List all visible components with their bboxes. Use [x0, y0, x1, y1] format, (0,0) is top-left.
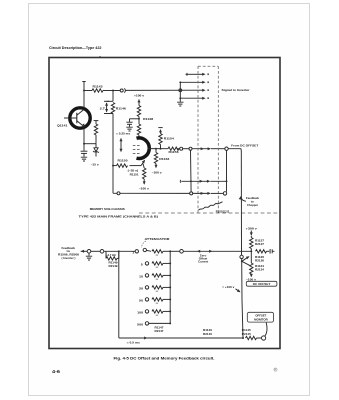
- capacitor output row1: [186, 73, 189, 76]
- svg-text:R2124: R2124: [255, 268, 265, 271]
- connector jack bus top: [225, 147, 228, 150]
- svg-text:(−55 v): (−55 v): [128, 170, 139, 173]
- registered mark: [274, 368, 277, 371]
- label feedback to chopper: [246, 196, 260, 207]
- wire: [95, 135, 97, 144]
- node: [169, 322, 171, 324]
- capacitor decoupling: [126, 122, 132, 127]
- node: [179, 81, 181, 83]
- wire output row4 arrow: [180, 97, 205, 100]
- node: [169, 250, 171, 252]
- wire zero offset current: [183, 250, 251, 253]
- resistor R1163: [154, 149, 170, 164]
- node: [169, 262, 171, 264]
- capacitor top plate small element: [94, 121, 99, 124]
- wire collector stub: [82, 82, 85, 91]
- svg-text:+300 v: +300 v: [246, 226, 258, 230]
- connector on row3: [179, 89, 182, 92]
- wire across chassis: [192, 147, 211, 150]
- pin mark row3: [207, 89, 209, 91]
- transistor Q1141: [57, 108, 90, 128]
- svg-text:R1154: R1154: [164, 136, 175, 140]
- svg-text:≈2.7 kΩ: ≈2.7 kΩ: [106, 254, 116, 257]
- svg-text:R2126: R2126: [255, 259, 265, 262]
- wire emitter row: [84, 143, 96, 145]
- resistor att row3: [152, 274, 170, 280]
- connector on bus: [240, 255, 243, 258]
- node junction: [138, 118, 140, 120]
- wire supply arrow down: [250, 231, 253, 236]
- svg-text:R1163: R1163: [159, 157, 170, 161]
- trimmer capacitor 2.7: [100, 101, 109, 113]
- svg-text:R1147: R1147: [155, 327, 165, 330]
- svg-text:Fig. 4-5 DC Offset and Memory: Fig. 4-5 DC Offset and Memory Feedback c…: [114, 356, 215, 360]
- resistor R1156: [168, 147, 179, 154]
- svg-text:Signal to Inverter: Signal to Inverter: [222, 88, 251, 92]
- svg-text:ATTENUATOR: ATTENUATOR: [145, 237, 170, 241]
- svg-text:Feedback: Feedback: [246, 196, 260, 200]
- wire att row7: [149, 322, 171, 324]
- wire row mid stub: [180, 180, 209, 183]
- label approx +100v: [222, 285, 241, 294]
- svg-text:100: 100: [137, 312, 144, 315]
- wire: [103, 90, 113, 92]
- svg-text:−100 v: −100 v: [246, 277, 257, 281]
- svg-text:4-6: 4-6: [52, 369, 61, 374]
- resistor R1146: [111, 103, 126, 114]
- svg-text:R1128: R1128: [143, 117, 154, 121]
- schematic frame: [49, 58, 280, 349]
- wire: [250, 249, 252, 252]
- wire supply arrow down: [250, 274, 253, 277]
- svg-text:R2149: R2149: [109, 265, 119, 268]
- resistor att row5: [152, 298, 170, 304]
- node: [169, 298, 171, 300]
- resistor att row1: [152, 250, 170, 256]
- node junction: [112, 90, 114, 92]
- chassis dashed line left: [197, 66, 199, 213]
- switch contact row5: [145, 298, 148, 301]
- timing double arrow: [120, 138, 123, 152]
- wire jack drop: [190, 150, 193, 192]
- wire down long: [112, 114, 114, 166]
- svg-text:R2147: R2147: [155, 330, 165, 333]
- ground decoupling: [126, 127, 132, 131]
- switch contact common: [135, 250, 138, 253]
- node bottom junction: [242, 337, 244, 339]
- svg-text:R1151: R1151: [130, 174, 140, 177]
- tube V1133 thick arc: [137, 138, 150, 159]
- node: [160, 148, 162, 150]
- switch contact row2: [145, 262, 148, 265]
- svg-text:R2140: R2140: [203, 333, 213, 336]
- svg-text:R1156: R1156: [169, 150, 180, 154]
- svg-text:Circuit Description—Type 422: Circuit Description—Type 422: [49, 46, 102, 50]
- wire: [211, 148, 225, 150]
- node wiper: [241, 260, 243, 262]
- wire bus lower: [242, 259, 243, 338]
- connector plug: [190, 192, 193, 195]
- connector monitor jack: [262, 336, 266, 340]
- svg-text:MONITOR: MONITOR: [254, 317, 268, 321]
- switch contact row3: [145, 274, 148, 277]
- wire to feedback bus: [228, 149, 241, 151]
- wire bottom row long: [120, 192, 190, 194]
- potentiometer R1126 R2126: [255, 249, 274, 262]
- svg-text:Offset: Offset: [199, 258, 208, 261]
- chassis dashed line right: [217, 66, 219, 213]
- resistor upper plate chain: [137, 106, 140, 117]
- svg-text:R1143: R1143: [93, 85, 104, 89]
- wire row mid arrows: [200, 180, 227, 183]
- wire attenuator leader dashed: [142, 241, 147, 248]
- wire emitter down: [83, 128, 85, 144]
- connector plug: [180, 147, 183, 150]
- wire: [91, 250, 100, 252]
- capacitor emitter bypass: [81, 144, 88, 157]
- node R1150 junction: [112, 165, 114, 167]
- wire supply arrow up: [138, 99, 141, 106]
- node bus mid: [226, 180, 228, 182]
- label feedback to inverter block: [58, 246, 80, 260]
- wire top to parallel pair: [112, 91, 114, 102]
- resistor R1150: [113, 158, 128, 167]
- svg-text:Zero: Zero: [200, 256, 207, 258]
- wire bottom row arrows: [193, 192, 224, 195]
- wire supply arrow down: [143, 179, 146, 185]
- tube grid dashes: [133, 145, 140, 153]
- box offset monitor: [247, 312, 273, 322]
- ground feedback: [86, 253, 92, 260]
- svg-text:500: 500: [137, 324, 144, 327]
- svg-text:≈ +100 v: ≈ +100 v: [222, 285, 235, 289]
- wire: [113, 90, 120, 92]
- wire chopper leader arrow: [239, 196, 246, 202]
- resistor R1149 2.7k: [106, 251, 119, 268]
- wire collector up: [83, 91, 85, 109]
- wire current arrow bottom: [144, 337, 147, 340]
- ground emitter: [81, 157, 87, 161]
- svg-text:−100 v: −100 v: [152, 170, 163, 174]
- resistor R1154 testpoint: [158, 128, 174, 149]
- wire wiper arrow: [242, 255, 251, 265]
- chassis dashed boundary horizontal: [139, 212, 279, 214]
- resistor emitter vertical: [94, 124, 97, 135]
- pin mark row4: [207, 97, 209, 99]
- resistor R1151: [143, 164, 146, 180]
- svg-text:R1150: R1150: [118, 158, 129, 162]
- wire memory row corner: [113, 166, 117, 194]
- connector att out: [180, 250, 184, 254]
- resistor R1145 R2145: [242, 329, 262, 339]
- wire feedback bus vertical: [240, 151, 242, 256]
- wire P1212 cable squiggle: [199, 202, 223, 210]
- wire bus vertical inner: [226, 150, 228, 191]
- wire: [177, 148, 180, 150]
- ground output bus: [177, 98, 183, 106]
- svg-text:+100 v: +100 v: [134, 94, 145, 98]
- wire output row2 arrow: [180, 81, 205, 84]
- svg-text:R1124: R1124: [255, 265, 265, 268]
- svg-text:−100 v: −100 v: [139, 187, 150, 191]
- wire monitor curve: [265, 323, 267, 337]
- connector jack feedback: [100, 250, 104, 254]
- node: [169, 310, 171, 312]
- wire to tube plate: [138, 135, 140, 138]
- switch wiper: [143, 248, 151, 251]
- node: [169, 274, 171, 276]
- resistor att row4: [152, 286, 170, 292]
- wire to R1143: [84, 90, 92, 92]
- wire to zero offset row: [170, 250, 180, 252]
- wire output row1 arrow: [189, 73, 206, 76]
- svg-text:Q1141: Q1141: [57, 124, 68, 128]
- connector jack bus bottom: [223, 192, 226, 195]
- wire plate row: [148, 148, 168, 150]
- svg-text:≈ 0.25 ms: ≈ 0.25 ms: [116, 133, 131, 136]
- node junction collector: [83, 90, 85, 92]
- wire output bus vertical: [179, 82, 181, 98]
- svg-text:P1212/J1212: P1212/J1212: [216, 211, 230, 213]
- wire feedback out arrow: [81, 250, 87, 253]
- svg-text:DC OFFSET: DC OFFSET: [253, 282, 271, 286]
- label R1147 R2147: [155, 327, 165, 334]
- resistor R1127 R2127: [250, 236, 265, 249]
- wire branch left: [130, 119, 140, 122]
- connector plug feedback: [87, 250, 91, 254]
- frame tick artifact: [99, 56, 101, 58]
- svg-text:R1127: R1127: [255, 240, 265, 243]
- wire attenuator input: [104, 250, 135, 252]
- node: [179, 97, 181, 99]
- chassis dashed bracket top: [198, 65, 218, 67]
- svg-text:( Inverter ): ( Inverter ): [62, 256, 76, 260]
- wire tie bars: [107, 101, 113, 113]
- svg-text:to: to: [251, 200, 255, 204]
- pin mark row2: [207, 81, 209, 83]
- label R1140 R2140: [203, 329, 213, 336]
- svg-text:Chopper: Chopper: [247, 203, 258, 207]
- resistor att row6: [152, 310, 170, 316]
- wire supply arrow down: [155, 164, 158, 169]
- diode to -15v: [93, 144, 99, 157]
- svg-text:−15 v: −15 v: [91, 162, 100, 166]
- node: [190, 180, 192, 182]
- svg-text:MEMORY SUB-CHASSIS: MEMORY SUB-CHASSIS: [90, 207, 125, 211]
- wire attenuator out bus: [169, 251, 171, 323]
- resistor R1124 R2124: [250, 251, 265, 274]
- pin mark row1: [207, 73, 209, 75]
- svg-text:R2127: R2127: [255, 243, 265, 246]
- svg-text:OFFSET: OFFSET: [255, 314, 266, 318]
- svg-text:TYPE 422 MAIN FRAME (CHANNELS: TYPE 422 MAIN FRAME (CHANNELS A & B): [79, 215, 158, 219]
- connector jack: [189, 147, 192, 150]
- box dc offset: [246, 281, 277, 286]
- connector plug bottom row: [117, 192, 120, 195]
- svg-text:≈ 0.5 ms: ≈ 0.5 ms: [127, 340, 141, 344]
- node: [169, 286, 171, 288]
- svg-text:R1140: R1140: [203, 329, 213, 332]
- switch contact row6: [145, 310, 148, 313]
- label zero offset current: [198, 256, 208, 264]
- node: [155, 148, 157, 150]
- wire left bus down: [119, 251, 243, 338]
- wire signal to inverter row: [126, 89, 205, 91]
- resistor R1143: [92, 85, 103, 93]
- node emitter junction: [83, 143, 85, 145]
- connector P/J pair: [120, 88, 125, 92]
- resistor lower plate chain: [137, 124, 140, 135]
- switch contact row4: [145, 286, 148, 289]
- node attenuator bus top: [118, 250, 120, 252]
- wire: [138, 117, 140, 125]
- svg-text:From DC OFFSET: From DC OFFSET: [231, 144, 258, 148]
- svg-text:R1149: R1149: [109, 261, 119, 264]
- svg-text:R1146: R1146: [116, 106, 127, 110]
- resistor att row2: [152, 262, 170, 268]
- node chain mid: [250, 250, 252, 252]
- switch contact row7: [145, 322, 148, 325]
- wire output row3 arrow: [202, 89, 205, 92]
- wire: [183, 148, 189, 150]
- wire cathode with arrow: [130, 159, 147, 166]
- svg-text:Current: Current: [198, 261, 208, 264]
